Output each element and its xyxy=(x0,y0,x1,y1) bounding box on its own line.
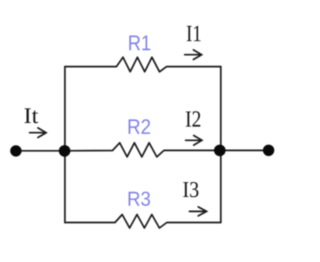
wire right rail xyxy=(220,67,222,223)
label R2 xyxy=(129,119,151,134)
label I2 xyxy=(186,111,201,126)
node: left junction xyxy=(59,145,71,157)
resistor R3 xyxy=(65,215,221,229)
resistor R1 xyxy=(65,57,221,72)
label R1 xyxy=(129,36,150,51)
arrow It xyxy=(30,128,46,138)
label I3 xyxy=(183,182,198,197)
label I1 xyxy=(187,26,201,41)
wire left terminal to junction xyxy=(16,150,65,152)
arrow I2 xyxy=(186,136,202,146)
arrow I3 xyxy=(189,207,206,216)
node: right terminal xyxy=(263,145,274,156)
label R3 xyxy=(129,192,150,206)
arrow I1 xyxy=(185,50,202,60)
node: right junction xyxy=(214,145,226,157)
label It xyxy=(25,108,39,123)
resistor R2 xyxy=(65,143,220,157)
node: left terminal xyxy=(10,145,21,156)
wire right junction to terminal xyxy=(220,149,269,151)
wire left rail xyxy=(64,67,66,223)
